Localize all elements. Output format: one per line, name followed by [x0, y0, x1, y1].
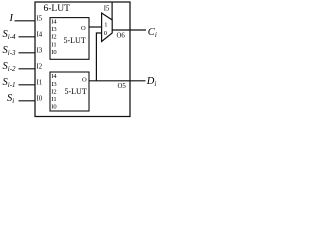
wire mux select I5: [111, 2, 113, 20]
svg-text:I3: I3: [51, 26, 56, 33]
wire mux output O6 to Ci: [112, 29, 146, 31]
svg-text:I2: I2: [51, 34, 56, 41]
svg-text:0: 0: [104, 30, 107, 37]
svg-text:5-LUT: 5-LUT: [64, 36, 86, 45]
svg-text:I0: I0: [51, 49, 56, 56]
svg-text:I4: I4: [51, 19, 57, 26]
svg-text:6-LUT: 6-LUT: [44, 4, 71, 14]
wire riser from O5 wire up to mux input 0: [96, 33, 101, 81]
svg-text:O: O: [81, 25, 86, 32]
mux U1: [102, 13, 113, 42]
svg-text:I5: I5: [104, 6, 110, 13]
svg-text:I0: I0: [37, 95, 43, 102]
wire input Si: [19, 100, 36, 102]
svg-text:Di: Di: [146, 76, 157, 88]
wire input I: [15, 20, 36, 22]
wire input Si-4: [19, 36, 36, 38]
5-LUT box lower: [50, 72, 89, 111]
svg-text:1: 1: [104, 22, 107, 29]
wire input Si-1: [19, 84, 36, 86]
wire input Si-3: [19, 52, 36, 54]
svg-text:I0: I0: [51, 104, 56, 111]
svg-text:O5: O5: [118, 83, 127, 90]
svg-text:I1: I1: [51, 41, 56, 48]
svg-text:I5: I5: [37, 15, 43, 22]
svg-text:5-LUT: 5-LUT: [65, 87, 87, 96]
svg-text:I2: I2: [37, 63, 43, 70]
svg-text:I4: I4: [51, 73, 57, 80]
svg-text:O: O: [82, 76, 87, 83]
svg-text:O6: O6: [117, 32, 126, 39]
svg-text:I3: I3: [51, 81, 56, 88]
svg-text:Si-2: Si-2: [3, 61, 17, 73]
wire input Si-2: [19, 68, 36, 70]
svg-text:I: I: [9, 13, 14, 24]
outer 6-LUT box: [35, 2, 130, 117]
5-LUT box upper: [50, 18, 89, 60]
svg-text:I1: I1: [51, 96, 56, 103]
svg-text:Si-3: Si-3: [3, 45, 17, 57]
svg-text:Si-1: Si-1: [3, 77, 16, 89]
svg-text:I4: I4: [37, 31, 43, 38]
svg-text:I1: I1: [37, 79, 43, 86]
svg-text:I2: I2: [51, 88, 56, 95]
svg-text:I3: I3: [37, 47, 43, 54]
wire lower O to O5 output: [89, 80, 146, 82]
wire upper O to mux input 1: [89, 26, 102, 28]
svg-text:Si: Si: [7, 93, 14, 105]
svg-text:Ci: Ci: [148, 27, 157, 39]
svg-text:Si-4: Si-4: [3, 29, 17, 41]
